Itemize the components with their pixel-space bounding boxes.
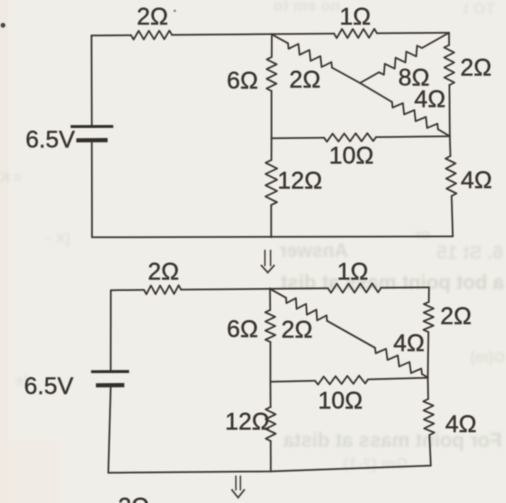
arrow reduce step 1 (double down arrow) [261, 250, 275, 273]
wire top left (lower circuit) [111, 289, 144, 291]
svg-text:2Ω: 2Ω [137, 4, 168, 31]
resistor R14 12Ohm (lower inner vertical) [266, 407, 276, 441]
svg-text:10Ω: 10Ω [329, 143, 374, 170]
svg-text:no em to: no em to [273, 0, 340, 15]
svg-text:6Ω: 6Ω [227, 316, 258, 343]
resistor R9 4Ohm (upper diagonal) [392, 102, 438, 129]
wire 8Ohm to center node (upper) [360, 72, 379, 83]
svg-text:G(m): G(m) [470, 349, 505, 366]
svg-text:Gm (2-1): Gm (2-1) [343, 456, 408, 473]
svg-text:2Ω: 2Ω [460, 54, 491, 81]
wire node B down to 6Ohm (lower) [269, 288, 271, 310]
wire diagonal middle (lower) [327, 321, 375, 348]
svg-text:6Ω: 6Ω [227, 67, 258, 94]
wire battery bottom segment (upper) [91, 143, 93, 238]
wire top middle (lower) [181, 288, 328, 289]
wire center node to 4Ohm diagonal (upper) [360, 83, 392, 102]
wire 4Ohm to bottom-right corner (lower) [429, 435, 430, 466]
wire 12Ohm to bottom (lower) [270, 441, 272, 471]
wire top right (upper) [377, 32, 449, 35]
svg-text:2Ω: 2Ω [118, 494, 149, 503]
wire middle left segment (upper) [272, 137, 325, 140]
svg-text:a bot point mass at dist: a bot point mass at dist [280, 272, 504, 294]
resistor R13 6Ohm (lower inner vertical) [265, 310, 275, 342]
resistor R18 2Ohm (lower diagonal) [286, 298, 327, 321]
svg-text:2Ω: 2Ω [289, 66, 320, 93]
svg-text:4Ω: 4Ω [445, 411, 476, 438]
wire top (upper circuit, battery+ to node A) [92, 34, 132, 36]
wire battery top segment (lower) [110, 290, 112, 370]
svg-text:12Ω: 12Ω [278, 167, 323, 194]
resistor R11 2Ohm (lower top-left) [144, 285, 181, 294]
svg-text:6.5V: 6.5V [24, 373, 73, 400]
resistor R1 2Ohm (upper top-left) [131, 31, 172, 40]
resistor R16 4Ohm (lower right edge) [423, 399, 434, 435]
resistor R5 2Ohm (upper right edge) [444, 45, 454, 85]
arrow reduce step 2 (double down arrow) [232, 476, 245, 498]
wire 6Ohm to mid node (upper) [270, 91, 272, 160]
wire bottom (upper circuit) [92, 235, 453, 238]
wire bottom (lower circuit) [108, 466, 431, 473]
wire middle left segment (lower) [270, 381, 315, 382]
wire diagonal from node B (lower) [270, 289, 286, 298]
wire middle right segment (upper) [376, 135, 450, 138]
svg-text:8Ω: 8Ω [398, 64, 429, 91]
speck after R1 label [174, 10, 176, 12]
wire 4Ohm to bottom-right corner (upper) [452, 196, 453, 236]
wire battery top segment (upper) [91, 36, 93, 126]
resistor R2 1Ohm (upper top-right) [334, 29, 377, 38]
bullet list marker [1, 23, 6, 28]
svg-text:2Ω: 2Ω [281, 317, 312, 344]
svg-text:10Ω: 10Ω [318, 387, 363, 414]
resistor R17 10Ohm (lower middle wire) [315, 376, 368, 385]
svg-text:12Ω: 12Ω [225, 409, 270, 436]
battery B1 positive plate (long) [71, 125, 114, 128]
wire 6Ohm to mid node (lower) [269, 342, 271, 407]
wire 4Ohm diagonal to mid-right node (lower) [422, 374, 428, 377]
wire node A down to 6Ohm (upper) [271, 34, 273, 57]
resistor R3 6Ohm (upper inner vertical) [267, 57, 277, 91]
resistor R12 1Ohm (lower top-right) [328, 283, 381, 292]
svg-text:4Ω: 4Ω [393, 330, 424, 357]
svg-text:1Ω: 1Ω [337, 259, 368, 286]
resistor R6 4Ohm (upper right edge) [446, 156, 457, 196]
wire diagonal to center node (upper) [332, 68, 360, 83]
svg-text:6.5V: 6.5V [26, 127, 75, 154]
wire top right (lower) [381, 286, 429, 288]
wire top middle (upper) [172, 34, 334, 35]
svg-text:2Ω: 2Ω [148, 259, 179, 286]
wire middle right segment (lower) [368, 378, 428, 380]
wire 2Ohm to mid-right node (lower) [427, 332, 430, 399]
svg-text:[X ~: [X ~ [44, 230, 70, 246]
svg-text:2Ω: 2Ω [440, 303, 471, 330]
wire right top segment (upper) [448, 33, 450, 45]
wire right top segment (lower) [428, 287, 430, 302]
resistor R19 4Ohm (lower diagonal) [375, 348, 422, 374]
wire 2Ohm to mid-right node (upper) [449, 85, 450, 156]
resistor R7 10Ohm (upper middle wire) [324, 133, 376, 142]
svg-text:= K: = K [0, 169, 22, 185]
battery B1 negative plate (short) [76, 138, 107, 142]
svg-text:TO t: TO t [463, 1, 495, 18]
resistor R4 12Ohm (upper inner vertical) [265, 160, 277, 205]
svg-text:6. St 15: 6. St 15 [436, 243, 503, 264]
wire battery bottom segment (lower) [108, 388, 110, 473]
battery B2 negative plate (short) [96, 383, 124, 387]
wire top-right corner to 8Ohm (upper) [422, 33, 449, 48]
resistor R10 8Ohm (upper cross diagonal) [379, 46, 422, 75]
svg-text:1Ω: 1Ω [340, 4, 371, 31]
wire 4Ohm diagonal to mid-right node (upper) [438, 129, 450, 136]
battery B2 positive plate (long) [91, 370, 129, 373]
svg-text:4Ω: 4Ω [461, 167, 492, 194]
wire diagonal from node A (upper) [272, 34, 288, 43]
paper shading patches [0, 0, 8, 503]
wire 12Ohm to bottom (upper) [270, 205, 272, 237]
svg-text:or: or [415, 226, 430, 243]
resistor R8 2Ohm (upper diagonal) [288, 43, 332, 67]
resistor R15 2Ohm (lower right edge) [423, 302, 433, 332]
